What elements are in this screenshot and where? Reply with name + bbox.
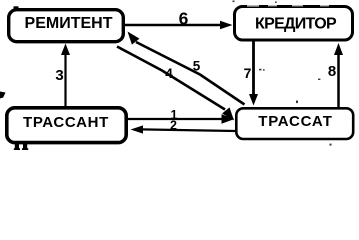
svg-text:ТРАССАТ: ТРАССАТ (258, 113, 332, 130)
box РЕМИТЕНТ (9, 10, 124, 42)
arrow 3 ТРАССАНТ to РЕМИТЕНТ (61, 44, 70, 107)
arrow 2 ТРАССАТ to ТРАССАНТ (131, 125, 236, 133)
erosion dashes on КРЕДИТОР top border (247, 5, 329, 7)
svg-text:ТРАССАНТ: ТРАССАНТ (23, 114, 109, 131)
corner spur artifact on РЕМИТЕНТ top-left (14, 6, 19, 10)
box ТРАССАТ (236, 108, 353, 139)
svg-text:3: 3 (55, 67, 63, 84)
arrow 8 ТРАССАТ to КРЕДИТОР (334, 43, 343, 107)
svg-text:7: 7 (244, 65, 252, 81)
box КРЕДИТОР (235, 7, 353, 41)
speck dots (233, 1, 332, 146)
arrow 1 ТРАССАНТ to ТРАССАТ (128, 114, 235, 124)
box ТРАССАНТ (7, 108, 126, 143)
svg-text:4: 4 (165, 66, 173, 81)
arrow 6 РЕМИТЕНТ to КРЕДИТОР (125, 21, 233, 30)
svg-text:РЕМИТЕНТ: РЕМИТЕНТ (25, 15, 113, 32)
arrow 5 diagonal ТРАССАТ to РЕМИТЕНТ (128, 32, 245, 105)
svg-text:5: 5 (193, 59, 201, 74)
svg-text:6: 6 (179, 8, 189, 28)
arrow 4 diagonal РЕМИТЕНТ to ТРАССАТ (117, 47, 234, 121)
artifact П glyph below ТРАССАНТ (14, 142, 28, 151)
svg-text:8: 8 (328, 63, 336, 80)
artifact wedge on left edge (0, 92, 6, 99)
svg-text:2: 2 (170, 119, 177, 133)
arrow 7 КРЕДИТОР to ТРАССАТ (249, 42, 258, 106)
svg-text:КРЕДИТОР: КРЕДИТОР (255, 15, 337, 32)
